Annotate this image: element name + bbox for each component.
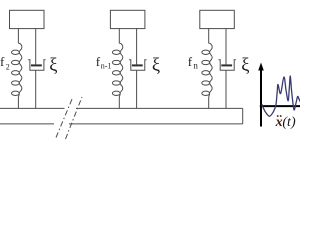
diaeresis dots over x: [277, 115, 279, 117]
mass block M3: [200, 10, 235, 28]
svg-text:f: f: [0, 54, 5, 69]
spring f_n-1: [112, 29, 122, 109]
mass block M2: [110, 10, 144, 28]
svg-text:n-1: n-1: [101, 62, 112, 71]
mass block M1: [10, 10, 45, 28]
graph horizontal axis: [260, 105, 300, 107]
break slash right: [66, 97, 83, 139]
break slash left: [56, 98, 73, 138]
svg-text:ξ: ξ: [241, 56, 249, 76]
svg-text:2: 2: [6, 63, 10, 72]
spring f2: [12, 29, 22, 109]
spring f_n: [202, 29, 212, 109]
damper (dashpot) unit 2: [129, 29, 146, 109]
damper (dashpot) unit 3: [219, 29, 236, 109]
acceleration waveform: [262, 76, 301, 116]
svg-text:f: f: [188, 54, 193, 69]
vertical axis arrowhead: [258, 63, 264, 71]
base beam bottom edge (broken): [0, 123, 243, 125]
svg-text:x: x: [275, 115, 283, 130]
base beam right edge: [242, 108, 244, 124]
svg-text:ξ: ξ: [49, 56, 57, 76]
svg-text:(t): (t): [282, 115, 296, 130]
graph vertical axis: [260, 67, 262, 127]
damper (dashpot) unit 1: [28, 29, 45, 109]
base beam top edge (broken): [0, 107, 243, 109]
svg-text:ξ: ξ: [152, 56, 160, 76]
svg-text:n: n: [193, 61, 198, 71]
